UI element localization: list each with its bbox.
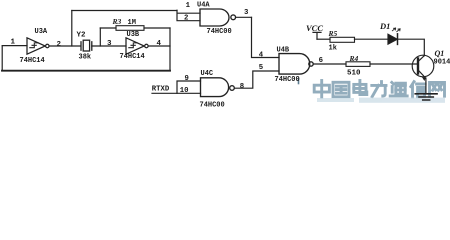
svg-text:8: 8 xyxy=(240,83,244,91)
svg-text:4: 4 xyxy=(259,52,264,60)
resistor R3 xyxy=(116,26,144,31)
svg-text:R3: R3 xyxy=(112,17,122,26)
svg-text:U4C: U4C xyxy=(201,70,214,78)
resistor R5 xyxy=(330,37,355,42)
svg-text:2: 2 xyxy=(57,41,62,49)
wire R4 to base xyxy=(370,63,417,65)
wire U3A input xyxy=(2,45,27,47)
wire R3 right xyxy=(144,27,170,29)
char 网 xyxy=(430,82,445,96)
svg-text:10: 10 xyxy=(180,87,189,95)
svg-text:74HC14: 74HC14 xyxy=(20,57,45,65)
svg-text:74HC00: 74HC00 xyxy=(207,28,232,36)
svg-text:1k: 1k xyxy=(329,45,337,53)
wire U4C out to U4B pin5 xyxy=(234,71,279,88)
watermark 中国电力通信网 xyxy=(314,81,444,98)
svg-text:U4B: U4B xyxy=(277,47,290,55)
wire U4B output xyxy=(313,63,346,65)
svg-text:R4: R4 xyxy=(349,54,359,63)
resistor R3 riser left xyxy=(99,28,101,46)
svg-text:U4A: U4A xyxy=(197,2,210,10)
wire right riser (R3/U3B out to rail) xyxy=(169,28,171,71)
transistor Q1 xyxy=(412,55,434,80)
inverter U3A xyxy=(27,38,49,54)
svg-text:9014: 9014 xyxy=(434,58,450,66)
svg-text:1: 1 xyxy=(186,2,191,10)
char 力 xyxy=(372,82,386,97)
watermark reflection xyxy=(317,98,445,103)
wire U4A input bracket xyxy=(177,10,200,21)
wire left edge down xyxy=(1,46,3,71)
inverter U3B xyxy=(126,38,148,54)
svg-text:Q1: Q1 xyxy=(435,49,445,58)
wire RTXD line xyxy=(152,92,201,94)
svg-text:3: 3 xyxy=(244,9,249,17)
wire U3B output xyxy=(149,45,171,47)
wire pin9 branch xyxy=(177,81,201,93)
nand gate U4C xyxy=(201,78,235,97)
wire emitter down xyxy=(425,78,427,94)
svg-text:1: 1 xyxy=(11,39,16,47)
wire D1 to collector xyxy=(398,39,425,55)
svg-text:Y2: Y2 xyxy=(77,32,87,40)
crystal Y2 xyxy=(81,40,92,51)
char 信 xyxy=(411,82,425,98)
svg-text:RTXD: RTXD xyxy=(152,85,170,93)
wire U4A output xyxy=(236,16,252,18)
svg-text:9: 9 xyxy=(185,75,189,83)
svg-text:2: 2 xyxy=(184,14,188,22)
diode D1 (LED) xyxy=(388,28,400,44)
wire U3A out to crystal xyxy=(49,45,80,47)
svg-text:1M: 1M xyxy=(128,19,136,27)
nand gate U4B xyxy=(279,54,313,75)
watermark stray mark xyxy=(298,79,300,84)
svg-text:5: 5 xyxy=(259,64,263,72)
wire R5 to D1 xyxy=(355,38,389,40)
svg-text:D1: D1 xyxy=(379,21,390,31)
char 中 xyxy=(314,81,329,98)
wire riser to top rail xyxy=(71,11,73,47)
svg-text:74HC00: 74HC00 xyxy=(200,102,225,108)
svg-text:510: 510 xyxy=(347,70,361,78)
svg-text:4: 4 xyxy=(157,40,162,48)
power VCC xyxy=(313,32,321,39)
wire riser U4A out to U4B pin4 xyxy=(252,17,280,57)
svg-text:6: 6 xyxy=(319,57,323,65)
svg-text:R5: R5 xyxy=(328,29,338,38)
svg-text:U3A: U3A xyxy=(35,28,48,36)
wire crystal to U3B input xyxy=(92,45,126,47)
char 国 xyxy=(333,82,349,97)
char 通 xyxy=(390,82,407,96)
wire top rail xyxy=(72,10,177,12)
svg-text:38k: 38k xyxy=(79,54,92,62)
svg-text:3: 3 xyxy=(107,40,112,48)
char 电 xyxy=(354,81,367,95)
wire U4B out to R4 handled; resistor R4 xyxy=(346,62,370,67)
wire R3 left xyxy=(100,27,116,29)
svg-text:U3B: U3B xyxy=(127,31,140,39)
svg-text:74HC00: 74HC00 xyxy=(275,76,300,84)
ground xyxy=(415,94,437,100)
nand gate U4A xyxy=(200,9,236,26)
svg-text:VCC: VCC xyxy=(306,23,323,33)
wire VCC to R5 xyxy=(317,38,330,40)
svg-text:74HC14: 74HC14 xyxy=(120,53,145,61)
wire bottom feedback rail xyxy=(2,70,170,72)
